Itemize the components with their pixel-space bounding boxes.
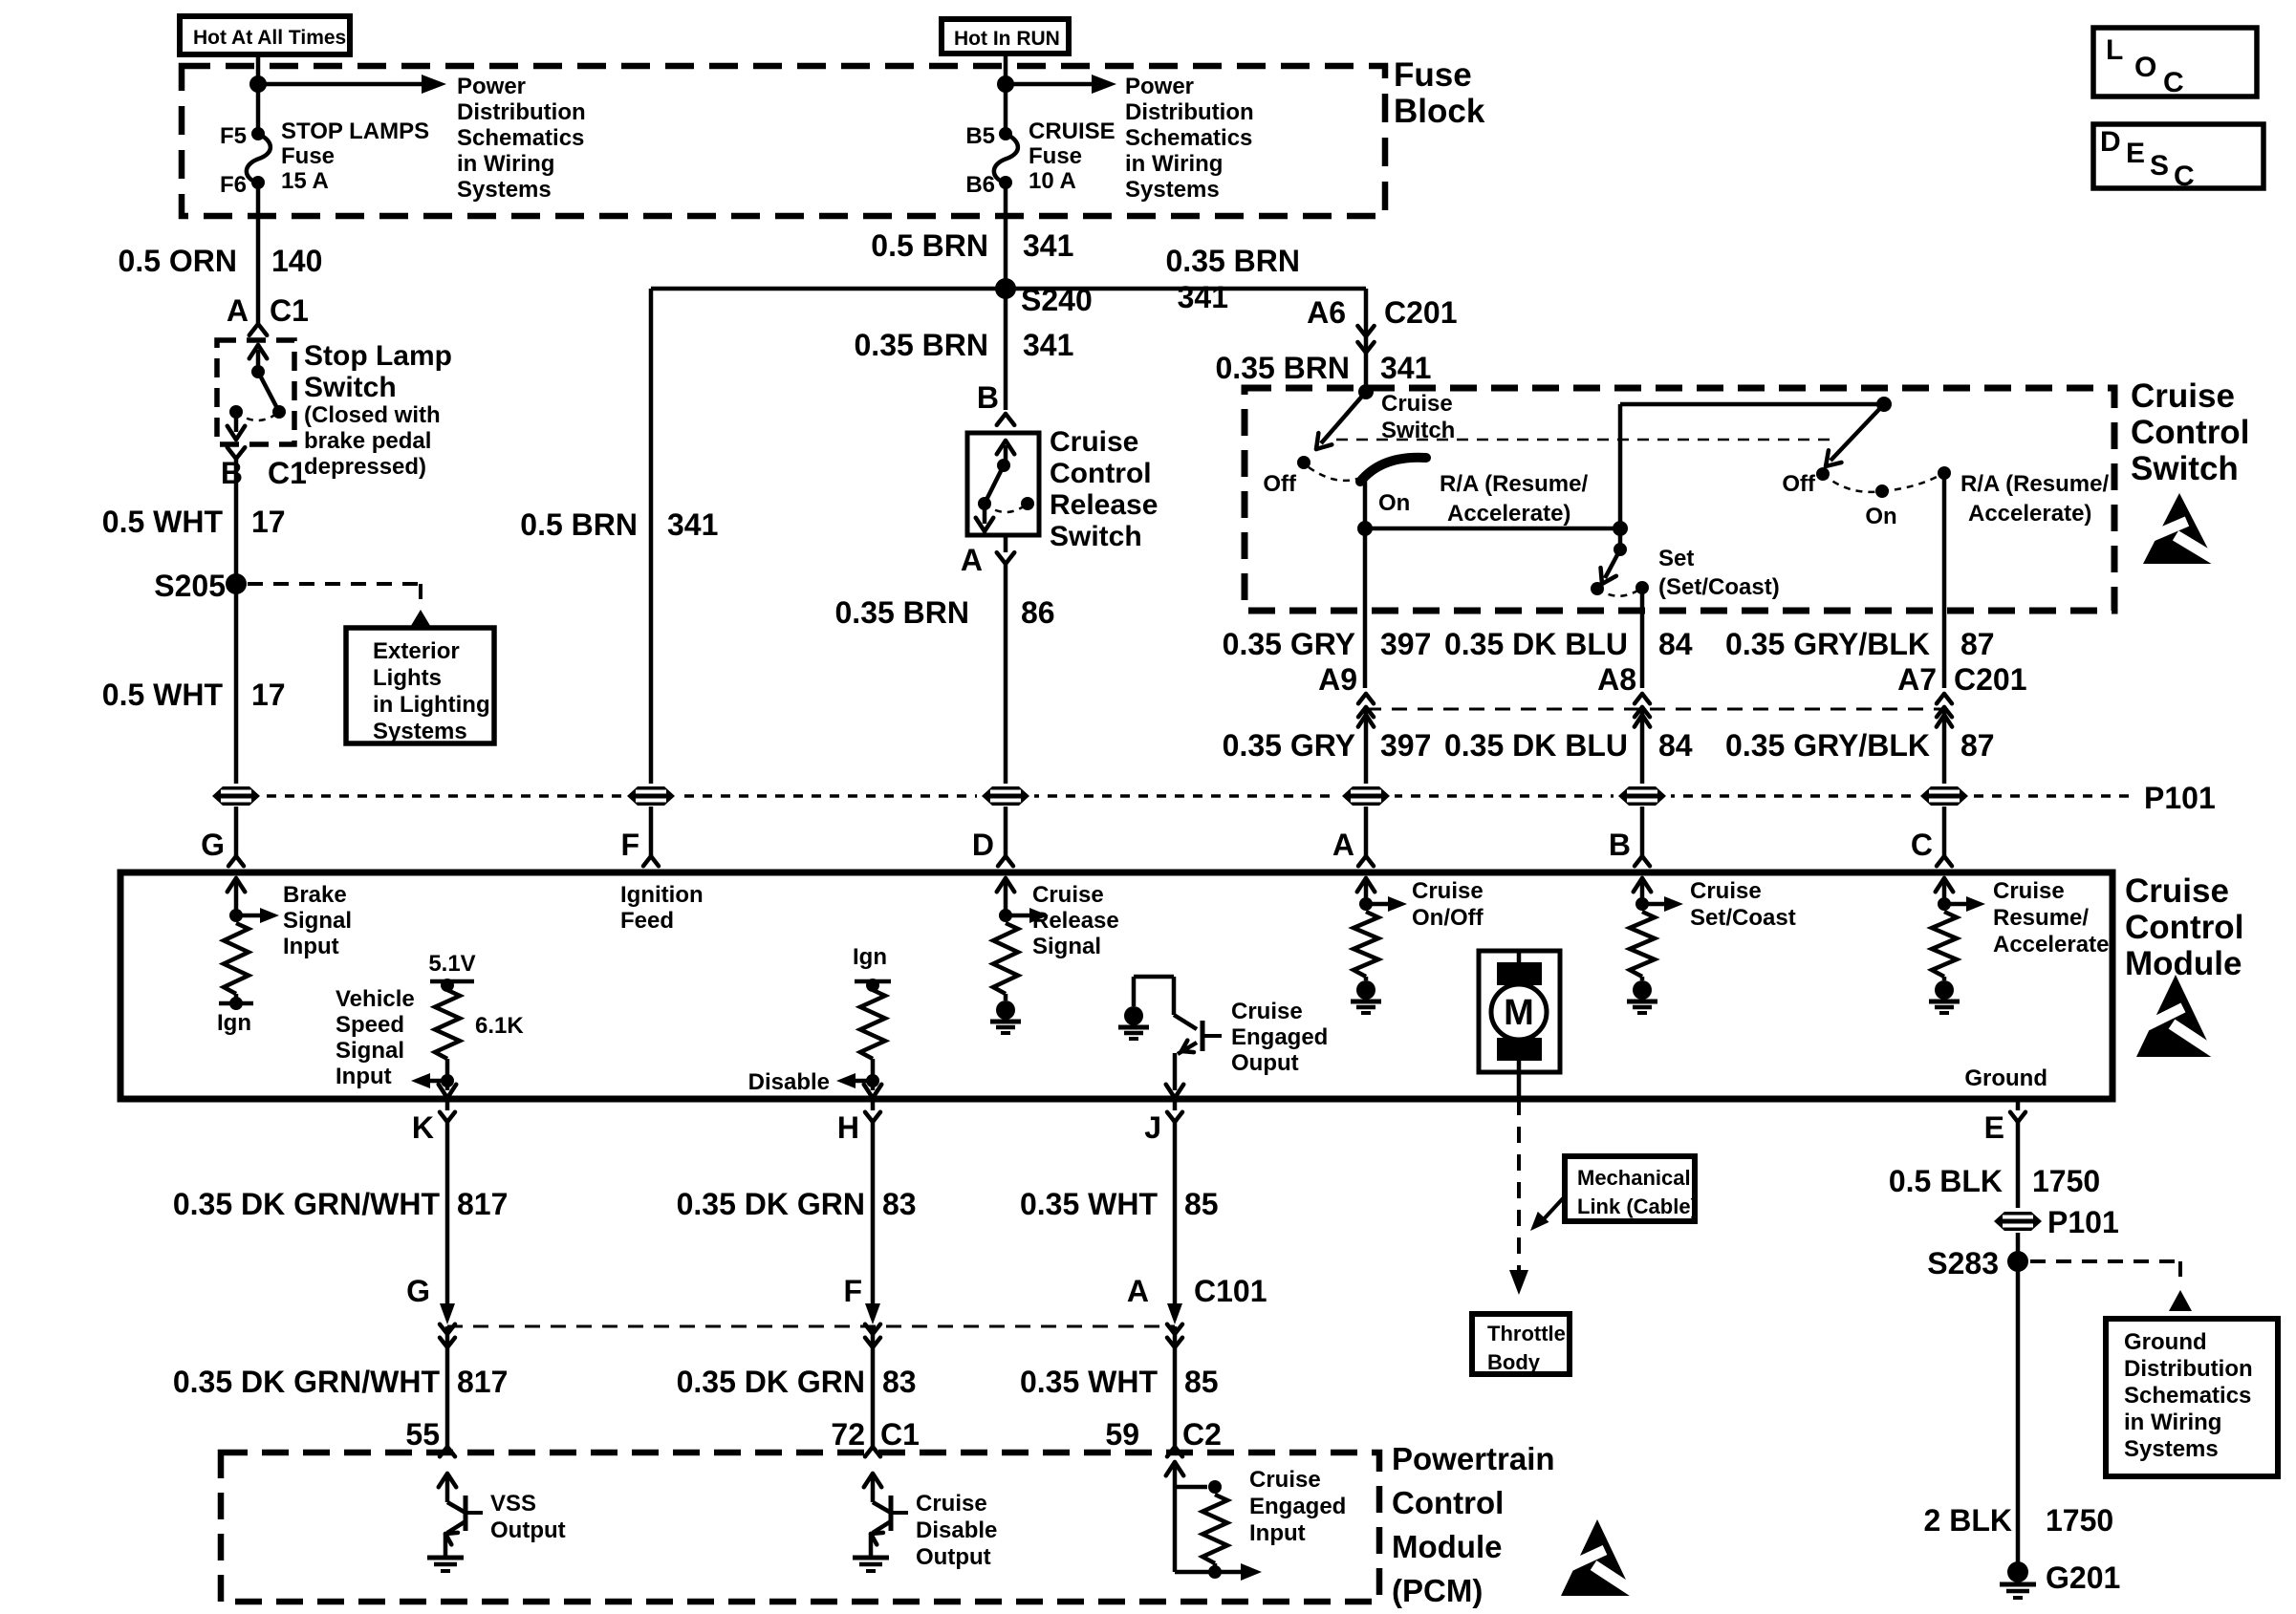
svg-text:D: D	[972, 828, 994, 862]
svg-text:Off: Off	[1263, 471, 1297, 497]
svg-text:Schematics: Schematics	[2124, 1383, 2251, 1409]
svg-text:Fuse: Fuse	[1029, 143, 1082, 169]
svg-text:0.35 WHT: 0.35 WHT	[1020, 1187, 1158, 1221]
svg-text:On: On	[1378, 490, 1410, 516]
svg-text:0.35 DK GRN: 0.35 DK GRN	[677, 1187, 865, 1221]
svg-text:0.5 ORN: 0.5 ORN	[119, 244, 237, 278]
svg-text:A: A	[227, 293, 249, 328]
svg-text:Power: Power	[1125, 74, 1194, 99]
svg-text:Set/Coast: Set/Coast	[1690, 905, 1796, 931]
svg-text:Input: Input	[1249, 1520, 1306, 1546]
svg-text:Signal: Signal	[336, 1038, 404, 1064]
svg-text:17: 17	[251, 678, 286, 712]
svg-text:On: On	[1865, 504, 1896, 529]
svg-text:M: M	[1504, 993, 1534, 1033]
svg-text:Accelerate: Accelerate	[1993, 932, 2109, 958]
svg-text:Signal: Signal	[1032, 934, 1101, 959]
svg-text:Accelerate): Accelerate)	[1447, 501, 1570, 527]
svg-text:Cruise: Cruise	[1050, 426, 1138, 458]
svg-text:C: C	[2174, 161, 2195, 192]
svg-text:C201: C201	[1384, 295, 1458, 330]
svg-text:C2: C2	[1182, 1417, 1222, 1452]
svg-text:Speed: Speed	[336, 1012, 404, 1038]
svg-text:0.5 BRN: 0.5 BRN	[871, 228, 988, 263]
svg-text:55: 55	[405, 1417, 440, 1452]
svg-text:Ign: Ign	[853, 944, 887, 970]
svg-text:0.35 DK GRN/WHT: 0.35 DK GRN/WHT	[173, 1365, 441, 1399]
svg-text:C1: C1	[270, 293, 309, 328]
svg-text:R/A (Resume/: R/A (Resume/	[1960, 471, 2109, 497]
svg-text:C: C	[2163, 67, 2184, 98]
svg-text:C1: C1	[268, 456, 307, 490]
svg-text:Accelerate): Accelerate)	[1968, 501, 2091, 527]
svg-text:Set: Set	[1658, 546, 1694, 571]
svg-text:Control: Control	[2131, 414, 2249, 451]
svg-text:Brake: Brake	[283, 882, 347, 908]
svg-text:B: B	[977, 380, 999, 415]
svg-text:Output: Output	[916, 1544, 991, 1570]
svg-text:Cruise: Cruise	[916, 1491, 987, 1517]
svg-text:0.35 GRY/BLK: 0.35 GRY/BLK	[1725, 627, 1930, 661]
svg-text:B6: B6	[965, 172, 995, 198]
svg-text:F6: F6	[220, 172, 247, 198]
svg-text:E: E	[2126, 138, 2145, 169]
svg-text:C201: C201	[1954, 662, 2027, 697]
svg-text:0.35 BRN: 0.35 BRN	[835, 595, 970, 630]
svg-text:J: J	[1144, 1110, 1161, 1145]
svg-text:87: 87	[1960, 627, 1995, 661]
svg-text:Off: Off	[1782, 471, 1816, 497]
svg-text:Link (Cable): Link (Cable)	[1577, 1194, 1698, 1218]
svg-text:Engaged: Engaged	[1231, 1024, 1328, 1050]
svg-text:Control: Control	[1392, 1485, 1504, 1520]
svg-text:85: 85	[1184, 1365, 1219, 1399]
svg-text:in Wiring: in Wiring	[1125, 151, 1223, 177]
svg-text:0.35 BRN: 0.35 BRN	[1216, 351, 1351, 385]
svg-text:Throttle: Throttle	[1487, 1322, 1566, 1345]
svg-text:P101: P101	[2144, 781, 2216, 815]
svg-text:Systems: Systems	[373, 719, 467, 744]
svg-text:B5: B5	[965, 123, 995, 149]
svg-text:Hot In RUN: Hot In RUN	[954, 28, 1060, 50]
svg-text:59: 59	[1105, 1417, 1139, 1452]
svg-text:341: 341	[1023, 328, 1073, 362]
svg-text:0.35 BRN: 0.35 BRN	[855, 328, 989, 362]
svg-text:S283: S283	[1927, 1246, 1999, 1280]
svg-text:0.5 WHT: 0.5 WHT	[102, 678, 224, 712]
svg-text:Ign: Ign	[217, 1010, 251, 1036]
svg-text:F: F	[620, 828, 639, 862]
svg-text:STOP LAMPS: STOP LAMPS	[281, 118, 429, 144]
svg-text:Systems: Systems	[457, 177, 552, 203]
svg-text:S205: S205	[154, 569, 226, 603]
svg-text:in Lighting: in Lighting	[373, 692, 490, 718]
svg-text:Distribution: Distribution	[457, 99, 586, 125]
svg-text:C: C	[1911, 828, 1933, 862]
svg-text:Disable: Disable	[748, 1069, 830, 1095]
svg-text:817: 817	[457, 1187, 508, 1221]
svg-text:Distribution: Distribution	[2124, 1356, 2253, 1382]
svg-text:Ground: Ground	[2124, 1329, 2207, 1355]
svg-text:Cruise: Cruise	[1249, 1467, 1321, 1493]
svg-text:Cruise: Cruise	[1032, 882, 1104, 908]
svg-text:Signal: Signal	[283, 908, 352, 934]
svg-text:H: H	[837, 1110, 859, 1145]
svg-text:Hot At All Times: Hot At All Times	[193, 27, 346, 49]
svg-text:87: 87	[1960, 728, 1995, 763]
svg-text:in Wiring: in Wiring	[2124, 1410, 2221, 1435]
svg-text:0.35 DK BLU: 0.35 DK BLU	[1444, 728, 1628, 763]
svg-text:0.35 DK GRN: 0.35 DK GRN	[677, 1365, 865, 1399]
svg-text:Powertrain: Powertrain	[1392, 1441, 1555, 1476]
svg-text:817: 817	[457, 1365, 508, 1399]
svg-text:Ouput: Ouput	[1231, 1050, 1299, 1076]
svg-text:Feed: Feed	[620, 908, 674, 934]
svg-text:84: 84	[1658, 728, 1693, 763]
svg-text:0.5 BRN: 0.5 BRN	[520, 507, 638, 542]
svg-text:Schematics: Schematics	[457, 125, 584, 151]
svg-text:1750: 1750	[2032, 1164, 2100, 1198]
svg-text:Ground: Ground	[1964, 1065, 2047, 1091]
svg-text:S: S	[2150, 150, 2169, 182]
svg-text:Control: Control	[1050, 458, 1152, 489]
svg-text:Systems: Systems	[2124, 1436, 2219, 1462]
svg-text:Cruise: Cruise	[1690, 878, 1762, 904]
svg-text:P101: P101	[2047, 1205, 2119, 1239]
svg-text:Body: Body	[1487, 1350, 1541, 1374]
svg-text:E: E	[1984, 1110, 2004, 1145]
svg-text:72: 72	[831, 1417, 865, 1452]
svg-text:0.5 BLK: 0.5 BLK	[1889, 1164, 2003, 1198]
svg-text:Cruise: Cruise	[1993, 878, 2065, 904]
svg-text:341: 341	[1380, 351, 1431, 385]
svg-text:10 A: 10 A	[1029, 168, 1076, 194]
svg-text:Release: Release	[1032, 908, 1119, 934]
svg-text:On/Off: On/Off	[1412, 905, 1484, 931]
svg-text:Resume/: Resume/	[1993, 905, 2089, 931]
svg-text:Mechanical: Mechanical	[1577, 1166, 1691, 1190]
svg-text:Schematics: Schematics	[1125, 125, 1252, 151]
svg-text:Fuse: Fuse	[1394, 56, 1472, 94]
svg-text:VSS: VSS	[490, 1491, 536, 1517]
svg-text:Power: Power	[457, 74, 526, 99]
svg-text:A7: A7	[1897, 662, 1937, 697]
svg-text:15 A: 15 A	[281, 168, 329, 194]
svg-text:Engaged: Engaged	[1249, 1494, 1346, 1519]
svg-text:F: F	[843, 1274, 862, 1308]
svg-text:C101: C101	[1194, 1274, 1267, 1308]
svg-text:0.35 WHT: 0.35 WHT	[1020, 1365, 1158, 1399]
svg-text:5.1V: 5.1V	[428, 951, 475, 977]
svg-text:depressed): depressed)	[304, 454, 426, 480]
svg-text:A: A	[1127, 1274, 1149, 1308]
svg-text:K: K	[412, 1110, 434, 1145]
svg-text:Release: Release	[1050, 489, 1158, 521]
svg-text:Module: Module	[1392, 1529, 1502, 1564]
svg-text:85: 85	[1184, 1187, 1219, 1221]
svg-text:Cruise: Cruise	[1231, 999, 1303, 1024]
svg-text:G: G	[406, 1274, 430, 1308]
svg-text:Cruise: Cruise	[2125, 872, 2229, 910]
svg-text:Disable: Disable	[916, 1517, 997, 1543]
svg-text:(PCM): (PCM)	[1392, 1573, 1483, 1608]
svg-text:140: 140	[271, 244, 322, 278]
svg-text:86: 86	[1021, 595, 1055, 630]
svg-text:G201: G201	[2046, 1560, 2120, 1595]
svg-text:G: G	[201, 828, 225, 862]
svg-text:Input: Input	[336, 1064, 392, 1089]
svg-text:A: A	[961, 543, 983, 577]
svg-text:Stop Lamp: Stop Lamp	[304, 340, 452, 372]
svg-text:Switch: Switch	[304, 372, 397, 403]
svg-text:83: 83	[882, 1187, 917, 1221]
svg-text:Lights: Lights	[373, 665, 442, 691]
svg-text:Distribution: Distribution	[1125, 99, 1254, 125]
svg-text:Ignition: Ignition	[620, 882, 704, 908]
svg-text:0.35 GRY/BLK: 0.35 GRY/BLK	[1725, 728, 1930, 763]
svg-text:Output: Output	[490, 1517, 566, 1543]
svg-text:B: B	[221, 456, 243, 490]
svg-text:O: O	[2134, 52, 2156, 83]
svg-text:Switch: Switch	[2131, 450, 2239, 487]
svg-text:341: 341	[1178, 280, 1228, 314]
svg-text:Module: Module	[2125, 945, 2242, 982]
svg-text:A: A	[1332, 828, 1354, 862]
svg-text:(Closed with: (Closed with	[304, 402, 441, 428]
svg-text:R/A (Resume/: R/A (Resume/	[1440, 471, 1588, 497]
svg-text:2 BLK: 2 BLK	[1924, 1503, 2012, 1538]
svg-text:1750: 1750	[2046, 1503, 2113, 1538]
svg-text:84: 84	[1658, 627, 1693, 661]
svg-text:D: D	[2100, 126, 2121, 158]
svg-text:A8: A8	[1597, 662, 1636, 697]
svg-text:Vehicle: Vehicle	[336, 986, 415, 1012]
svg-text:0.35 BRN: 0.35 BRN	[1166, 244, 1301, 278]
svg-text:0.35 GRY: 0.35 GRY	[1223, 728, 1355, 763]
svg-text:341: 341	[667, 507, 718, 542]
svg-text:Systems: Systems	[1125, 177, 1220, 203]
svg-text:Switch: Switch	[1381, 418, 1455, 443]
svg-text:6.1K: 6.1K	[475, 1013, 524, 1039]
svg-text:Fuse: Fuse	[281, 143, 335, 169]
svg-text:Switch: Switch	[1050, 521, 1142, 552]
svg-text:A6: A6	[1307, 295, 1346, 330]
svg-text:L: L	[2106, 34, 2123, 66]
svg-text:397: 397	[1380, 728, 1431, 763]
svg-text:in Wiring: in Wiring	[457, 151, 554, 177]
svg-text:397: 397	[1380, 627, 1431, 661]
svg-text:0.35 GRY: 0.35 GRY	[1223, 627, 1355, 661]
svg-text:S240: S240	[1021, 283, 1093, 317]
svg-text:0.35 DK BLU: 0.35 DK BLU	[1444, 627, 1628, 661]
svg-text:CRUISE: CRUISE	[1029, 118, 1116, 144]
svg-text:(Set/Coast): (Set/Coast)	[1658, 574, 1780, 600]
svg-text:Input: Input	[283, 934, 339, 959]
svg-text:Cruise: Cruise	[1381, 391, 1453, 417]
svg-text:Exterior: Exterior	[373, 638, 460, 664]
svg-text:341: 341	[1023, 228, 1073, 263]
svg-text:Cruise: Cruise	[1412, 878, 1484, 904]
svg-text:17: 17	[251, 505, 286, 539]
svg-text:0.5 WHT: 0.5 WHT	[102, 505, 224, 539]
svg-text:Control: Control	[2125, 909, 2243, 946]
svg-text:A9: A9	[1318, 662, 1357, 697]
svg-text:Block: Block	[1394, 93, 1485, 130]
svg-text:Cruise: Cruise	[2131, 377, 2235, 415]
svg-text:B: B	[1609, 828, 1631, 862]
svg-text:F5: F5	[220, 123, 247, 149]
svg-text:C1: C1	[880, 1417, 920, 1452]
svg-text:83: 83	[882, 1365, 917, 1399]
svg-text:0.35 DK GRN/WHT: 0.35 DK GRN/WHT	[173, 1187, 441, 1221]
svg-text:brake pedal: brake pedal	[304, 428, 431, 454]
